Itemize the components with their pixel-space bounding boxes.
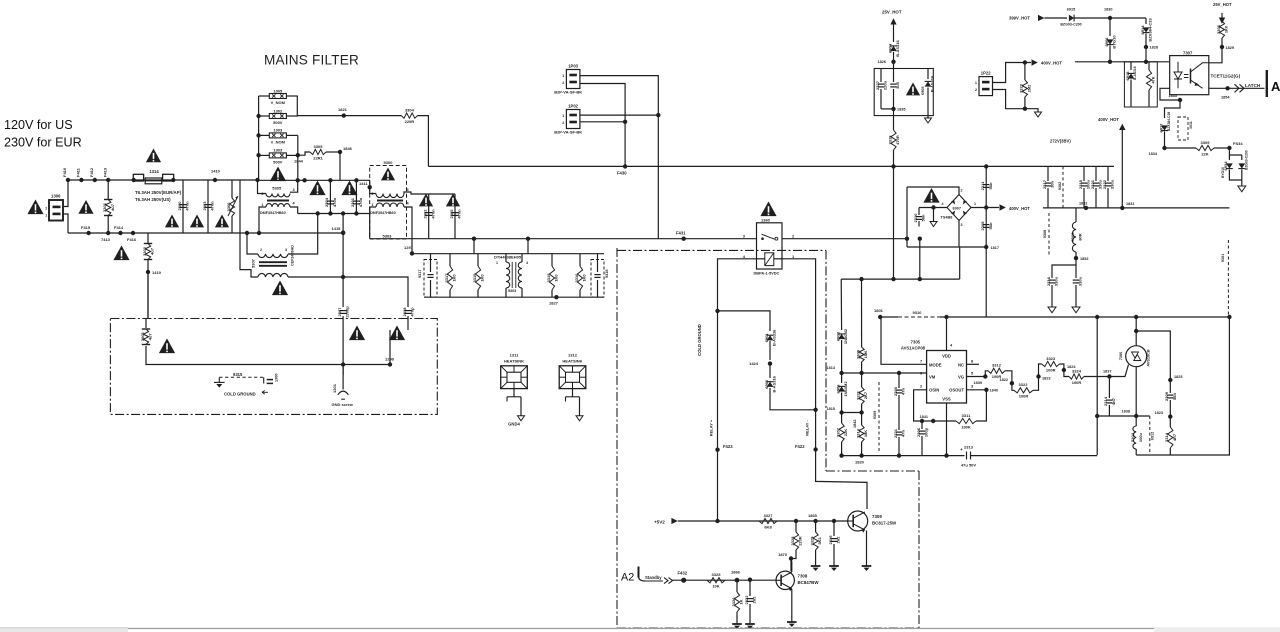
bridge pin4 snubber wire [919,207,947,209]
link 1815 1842 [842,412,862,414]
dashed box 9318 with capacitor [591,260,604,298]
svg-text:5307: 5307 [251,258,256,268]
svg-text:NC: NC [958,363,964,368]
warning triangle below 5307 [272,281,288,296]
capacitor 2322 [1107,166,1109,181]
resistor 3307 22K [841,413,843,424]
resistor 3323 100R [1042,361,1060,366]
wire 1P02 pin1 [580,114,658,116]
svg-text:330u: 330u [1110,179,1115,189]
capacitor 2327 220n [880,69,882,83]
svg-text:9302: 9302 [1058,182,1062,190]
svg-text:6904: 6904 [887,43,892,53]
svg-text:1360: 1360 [761,218,771,223]
node 1870 [789,556,793,560]
wire 3304 to hot rail [418,116,429,167]
svg-text:T6.3AH 250V(EUR/AP): T6.3AH 250V(EUR/AP) [135,190,182,195]
svg-text:2316: 2316 [1046,276,1051,286]
connector 1P02 [566,110,580,129]
svg-text:2300: 2300 [177,201,182,211]
svg-text:1K0: 1K0 [554,274,559,282]
warning triangle mid-filter 1 [309,181,325,196]
diode 6944 BZG03-C200 [1241,155,1243,160]
wire 5306 pin4 down [404,207,412,239]
svg-text:1: 1 [496,261,498,265]
resistor 3315 1K0 [551,254,553,266]
node 1827 [554,295,558,299]
svg-text:9318: 9318 [605,270,609,278]
ground arrow in bridge [930,222,937,227]
top rail extension over caps [258,179,371,181]
svg-text:F423: F423 [723,444,733,449]
svg-text:V_NOM: V_NOM [271,140,286,145]
shield 5300 dashed box [370,166,407,240]
node 1832 [1084,206,1088,210]
wire varistor stack to resistor 3304 [297,115,401,117]
resistor 3314 4R7 [1169,417,1171,427]
svg-text:4R7: 4R7 [1172,433,1177,441]
wire bottom rail down to 5307 row1 [247,233,258,254]
svg-text:VG: VG [958,375,964,380]
svg-text:BYG10: BYG10 [1221,167,1225,178]
svg-text:F431: F431 [676,231,686,236]
node 1837 [1107,374,1111,378]
svg-text:1829: 1829 [1226,46,1234,50]
diode 6905 BAS316 [927,69,929,80]
svg-text:1P03: 1P03 [568,64,578,69]
capacitor 2302 470n [428,194,430,239]
svg-text:56n: 56n [988,182,993,189]
resistor 3326 1K [736,580,738,592]
svg-text:BC817-25W: BC817-25W [872,521,897,526]
VSS wire [946,403,948,456]
dashed 9309 [878,382,880,452]
warning triangle row 3 [215,215,229,228]
fuse 1314 [133,174,143,181]
svg-text:7413: 7413 [101,237,111,242]
node 1814 [839,371,843,375]
svg-text:BC847BW: BC847BW [798,580,820,585]
warning triangle below 2307 [349,326,365,341]
svg-text:FS34: FS34 [1233,141,1243,146]
svg-text:2322: 2322 [744,595,749,605]
bottom rail right section [1136,317,1229,455]
resistor 3322 100R [1014,388,1033,393]
wire 5306 pin3 output [404,192,455,194]
bottom edge strip [0,627,128,632]
dash-dot boundary cold ground area [616,248,618,628]
svg-text:DTH4038EH05: DTH4038EH05 [494,255,522,260]
wire 1P22 pin1 to 400V_HOT flag [993,63,1032,83]
inductor 5308 80R [1075,208,1077,222]
svg-text:470R: 470R [895,135,900,145]
resistor 3910 47K [1148,62,1150,70]
diode 6918 BAS316 [1130,62,1132,70]
svg-text:F411: F411 [76,167,81,177]
svg-text:3321: 3321 [855,390,860,400]
resistor 3311 100K [956,418,976,423]
svg-text:1831: 1831 [1126,202,1134,206]
svg-text:A2: A2 [1271,79,1280,94]
capacitor 2307 2200p [339,310,346,312]
svg-text:2317: 2317 [1042,179,1047,189]
wire 1P22 pin2 to ground [993,90,1039,113]
varistor stack right wire upper [296,96,298,116]
svg-text:1424: 1424 [749,361,759,366]
svg-text:B2P-VA-SF-BK: B2P-VA-SF-BK [554,130,582,135]
svg-text:2200p: 2200p [345,306,350,318]
svg-text:56n: 56n [1172,393,1177,400]
svg-text:BZG03-C200: BZG03-C200 [1245,150,1249,170]
svg-text:4: 4 [942,202,944,206]
node 1410 [213,178,217,182]
svg-text:COLD GROUND: COLD GROUND [697,324,702,356]
capacitor 2331 47n [896,431,902,433]
svg-text:2: 2 [371,192,373,196]
resistor 3301 4u7 fusible [107,180,109,199]
svg-text:1306: 1306 [51,194,61,199]
diode 6906 BYG10 [1107,39,1114,44]
svg-text:VDD: VDD [942,354,951,359]
connector 1P22 [979,77,993,96]
svg-text:BZX384-C39: BZX384-C39 [1167,112,1171,131]
svg-text:100K: 100K [961,424,971,429]
svg-text:4u7: 4u7 [148,333,153,341]
wire 5305 pin3 up to top rail [290,180,298,192]
svg-text:5303: 5303 [508,289,516,293]
svg-text:6917: 6917 [1158,123,1163,133]
VM rail wire [842,372,927,374]
svg-text:1842: 1842 [853,420,857,428]
resistor 3329 3K3 [815,521,817,532]
wire 5305 pin4 down to mid rail [290,207,298,214]
varistor stack right wire lower [297,135,299,155]
svg-text:470n: 470n [210,201,215,211]
rail 317 [880,316,898,318]
node 1424 [768,361,772,365]
dashed box 9317 with capacitor [424,260,437,298]
gate wire to triac [1109,365,1128,377]
svg-text:1854: 1854 [1221,96,1230,100]
node 1838 [1134,414,1138,418]
node 1834 [1162,146,1166,150]
resistor 3321 2K7 [861,373,863,387]
ground under 6944 [1238,186,1246,192]
wire connector pin N to top rail [63,180,68,207]
border bar A2 right [1266,70,1268,97]
varistor 1302 [269,114,286,119]
resistor 3328 220R to node 1870 [795,521,797,532]
wire 1846 down to line [339,152,341,180]
svg-text:1820: 1820 [855,460,865,465]
node F431 [682,237,686,241]
network top wire [424,253,604,255]
svg-text:2300: 2300 [893,386,898,396]
varistor 1303 [269,153,286,158]
svg-text:2: 2 [961,189,963,193]
svg-text:9309: 9309 [873,411,877,419]
svg-text:2304: 2304 [324,197,329,207]
node F410 [66,178,70,182]
svg-text:B-AS316: B-AS316 [772,375,777,392]
svg-text:B-AS316: B-AS316 [772,329,777,346]
svg-text:3315: 3315 [546,273,551,283]
svg-text:AVS1ACP08: AVS1ACP08 [901,346,926,351]
diode 6914 BZX384-C33 [1143,27,1150,32]
hot rail 166 [428,165,1114,167]
svg-text:220R: 220R [798,536,803,546]
node 1824 [1062,368,1066,372]
node 1826b [1168,378,1172,382]
connector 1306 mains input [49,200,63,221]
svg-text:6914: 6914 [1140,25,1145,35]
warning triangle bridge [923,188,939,203]
wire 1P02 pin2 [580,121,625,123]
svg-text:1410: 1410 [211,169,221,174]
svg-text:DMF3547HB60: DMF3547HB60 [260,211,286,215]
svg-text:HEATSINK: HEATSINK [504,358,524,363]
node 1298 [388,362,392,366]
svg-text:230V for EUR: 230V for EUR [4,136,82,150]
emitter ground 7308 [791,589,793,622]
svg-text:6906: 6906 [1104,37,1109,47]
svg-text:400V_HOT: 400V_HOT [1098,117,1119,122]
svg-text:F415: F415 [81,225,91,230]
svg-text:56n: 56n [921,214,926,221]
svg-text:3309: 3309 [855,349,860,359]
svg-text:TS4B8: TS4B8 [941,216,953,220]
svg-text:470n: 470n [185,201,190,211]
svg-text:2301: 2301 [350,197,355,207]
svg-text:1832: 1832 [1079,202,1087,206]
svg-text:9315: 9315 [233,372,243,377]
svg-text:220R: 220R [405,119,415,124]
svg-text:9308: 9308 [1043,230,1047,238]
mid rail 213.5 [298,213,370,215]
svg-text:LATCH: LATCH [1245,83,1261,88]
svg-text:1821: 1821 [338,107,348,112]
svg-text:2306: 2306 [916,427,921,437]
svg-text:3323: 3323 [1046,356,1056,361]
svg-text:18K: 18K [863,430,868,437]
latch snubber box [1124,62,1157,107]
MODE wire [881,317,927,364]
svg-text:2318: 2318 [402,307,407,317]
warning triangle mid-filter 2 [341,181,357,196]
svg-text:2331: 2331 [893,428,898,438]
ground under 3326 [732,623,742,625]
wire 1830 down diode 6906 [1109,18,1111,36]
heatsink 1312 [559,366,586,389]
node F430 [623,164,627,168]
capacitor 2303 470n [207,180,209,233]
svg-text:1: 1 [974,202,976,206]
branch to snubber 2309 [1136,331,1170,380]
wire line rail down to 5307 row2 [240,180,258,277]
capacitor 2300 470n [182,180,184,233]
svg-text:6915: 6915 [1067,8,1075,12]
capacitor 2305 470n [454,194,456,239]
node 1297 [410,251,414,255]
capacitor 9302 [1062,166,1064,208]
svg-text:1823: 1823 [1042,377,1050,381]
svg-text:VM: VM [929,375,936,380]
svg-text:47n: 47n [901,388,906,395]
svg-text:3: 3 [961,223,963,227]
vertical snubber wire at bridge [985,166,987,317]
node 1828 [1144,45,1148,49]
warning triangle cap 2302 [419,194,433,207]
resistor 3313 18K [861,413,863,426]
svg-text:2310: 2310 [913,213,918,223]
svg-text:5303: 5303 [383,234,393,239]
snubber rail 416 [1097,415,1150,417]
capacitor 2304 470n [329,180,331,213]
svg-text:2M2: 2M2 [1027,84,1032,93]
svg-text:F432: F432 [678,571,688,576]
svg-text:B-AS316: B-AS316 [895,40,900,57]
resistor 3318 470R [893,116,895,130]
diode 6906b 1N60M2 [841,373,843,383]
diode branch junction on RELAY+ [715,309,719,313]
svg-text:47K: 47K [1151,76,1156,83]
OSIN loop [914,390,956,421]
wire VM divider B [861,279,863,347]
svg-text:1825: 1825 [1174,375,1182,379]
node F415 [86,231,90,235]
junction +5V2 with RELAY+ [715,519,719,523]
svg-text:1911: 1911 [1189,121,1193,129]
svg-text:3K3: 3K3 [817,537,822,545]
transformer 5307 CEF2409HD [258,254,288,258]
svg-text:6K8: 6K8 [764,524,772,529]
svg-text:47n: 47n [901,430,906,437]
svg-text:2K7: 2K7 [863,391,868,399]
svg-text:6901: 6901 [764,333,769,343]
svg-text:4: 4 [526,261,528,265]
svg-text:6903: 6903 [835,331,840,341]
capacitor 2317 [1047,166,1049,181]
varistor 1005 [269,94,286,99]
resistor 3317 1K0 [449,254,451,266]
diode 6917 BZX384-C39 [1161,125,1168,130]
node 1817 [984,245,988,249]
svg-text:100R: 100R [1019,394,1029,399]
svg-text:1834: 1834 [1149,152,1158,156]
svg-text:2305: 2305 [449,209,454,219]
wire 1828 branch [1145,18,1147,24]
bridge input wire left [906,187,908,247]
svg-text:1300: 1300 [275,374,279,382]
svg-text:1N60M2: 1N60M2 [843,381,848,397]
svg-text:25V_HOT: 25V_HOT [882,10,902,15]
svg-text:1005: 1005 [273,88,283,93]
svg-text:VSS: VSS [942,397,951,402]
svg-text:22K: 22K [1201,151,1208,156]
svg-text:1003: 1003 [273,128,283,133]
svg-text:1415: 1415 [332,226,342,231]
svg-text:7309: 7309 [872,514,882,519]
transformer 5306 DMF3547HB60 [376,194,404,198]
wire relay pin1 RELAY- [782,259,867,509]
svg-text:470n: 470n [430,209,435,219]
wire standby to transistor 7308 [673,579,777,581]
svg-text:6900: 6900 [764,379,769,389]
svg-text:F410: F410 [62,167,67,177]
emitter ground 7309 [866,531,868,567]
svg-text:2313: 2313 [964,445,974,450]
svg-text:1P02: 1P02 [568,104,578,109]
warning triangle below 2318 [389,326,405,341]
svg-text:1302: 1302 [273,108,283,113]
triac 7306 AVS10CB [1126,346,1147,367]
svg-text:3320: 3320 [1019,83,1024,93]
svg-text:1: 1 [371,203,373,207]
svg-text:1314: 1314 [149,169,159,174]
capacitor 2300 47n [898,373,900,388]
svg-text:470p: 470p [410,307,415,317]
capacitor 2306 100p [921,421,923,429]
wire opto cathode to node 1833 [1160,88,1180,118]
svg-text:V_NOM: V_NOM [271,100,286,105]
capacitor 2320 330u [1075,265,1077,278]
svg-text:5300: 5300 [384,160,394,165]
svg-text:1815: 1815 [827,407,835,411]
svg-text:RELAY -: RELAY - [805,420,810,436]
node F416 [131,231,135,235]
dashed 6912 [1149,416,1151,455]
diode 6934 BYG10 [1229,148,1241,155]
svg-text:2: 2 [562,121,564,125]
svg-text:2303: 2303 [202,201,207,211]
svg-text:3003: 3003 [140,332,145,342]
svg-text:1N60M2: 1N60M2 [843,328,848,344]
node FS34 [1227,146,1231,150]
resistor 3319 1K0 [477,254,479,266]
svg-text:330u: 330u [1078,276,1083,286]
node 1866 [735,578,740,583]
svg-text:DBPA-1-5VDC: DBPA-1-5VDC [754,271,780,276]
ground under 2322 [745,623,755,625]
capacitor 2308 56n [983,224,989,226]
varistor stack left wire [258,96,260,180]
svg-text:2322: 2322 [1102,179,1107,189]
capacitor 2301 470n [355,180,357,213]
bridge output 400V_HOT [971,207,999,209]
bridge bottom wire [907,246,986,248]
svg-text:470n: 470n [332,197,337,207]
svg-text:2n2: 2n2 [836,536,841,544]
resistor 3003 4u7 fusible [142,328,150,330]
wire 5307 row2 to cold-ground caps [288,277,408,307]
svg-text:470n: 470n [457,209,462,219]
svg-text:3327: 3327 [764,513,774,518]
node 1419 [147,263,149,319]
dashed 1911 [1178,117,1188,140]
warning triangle cap 2305 [446,194,460,207]
svg-text:2: 2 [45,207,47,211]
svg-text:3326: 3326 [731,597,736,607]
svg-text:1822: 1822 [1000,378,1008,382]
svg-text:OSIN: OSIN [929,388,939,393]
wire 1P03 pin1 to F431 drop [580,76,658,239]
svg-text:3319: 3319 [472,273,477,283]
svg-text:2321: 2321 [1090,179,1095,189]
svg-text:3328: 3328 [790,536,795,546]
node F422 [813,447,817,451]
svg-text:1303: 1303 [273,148,283,153]
svg-text:1: 1 [562,114,564,118]
